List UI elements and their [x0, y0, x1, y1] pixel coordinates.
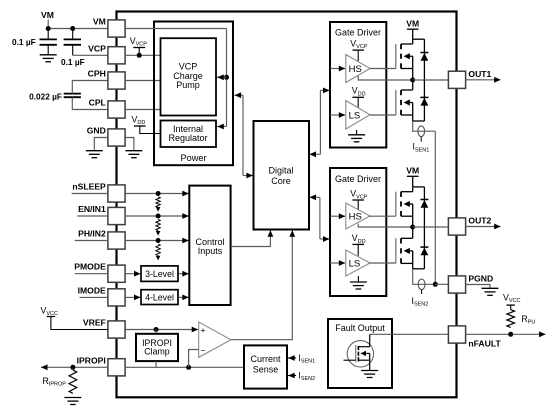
wire VM supply drop — [47, 20, 49, 29]
transistor HS2 FET — [396, 192, 413, 217]
wire fault FET source to ground — [369, 360, 371, 370]
pin PMODE — [108, 265, 125, 282]
wire IPROPI external lead with arrow — [41, 364, 108, 370]
capacitor C2 0.1 uF (VM to VCP) — [64, 29, 81, 56]
svg-text:VVCP: VVCP — [130, 36, 148, 48]
net label I_SEN2 at Current Sense — [298, 371, 315, 383]
wire OUT2 external with arrow — [466, 224, 501, 230]
wire HS1 input — [330, 66, 345, 72]
pin label OUT1 — [468, 69, 491, 79]
pin label PGND — [468, 274, 493, 284]
ground at PGND pin — [482, 288, 499, 295]
wire HS1 drain to body diode — [413, 38, 425, 40]
svg-text:VVCP: VVCP — [350, 38, 368, 50]
wire PMODE pin to 3-Level — [125, 271, 140, 277]
wire Digital Core to Gate Driver 2 — [310, 194, 330, 242]
pin label VREF — [83, 318, 106, 328]
wire I_SEN1 into Current Sense — [288, 355, 296, 361]
wire 4-Level to Control Inputs — [179, 295, 189, 301]
pin label CPL — [89, 98, 106, 108]
svg-text:CPL: CPL — [89, 98, 106, 108]
svg-text:VM: VM — [41, 10, 54, 20]
wire VREF pin to comparator — [125, 327, 198, 333]
ground right of GND pin — [125, 151, 142, 158]
wire HS2 source to OUT2 node — [412, 216, 414, 227]
wire LS2 sense path — [413, 269, 435, 285]
wire EN/IN1 pin to Control Inputs — [125, 213, 189, 219]
wire GND pin to right ground — [125, 138, 134, 151]
net label V_VCP in Gate Driver 2 — [350, 189, 368, 201]
wire VM feed into charge pump — [217, 74, 227, 80]
pin CPL — [108, 101, 125, 118]
svg-text:LS: LS — [349, 110, 361, 121]
wire 3-Level to Control Inputs — [179, 271, 189, 277]
block label Fault Output — [335, 323, 385, 333]
wire PH/IN2 external lead — [75, 240, 108, 242]
wire IMODE pin to 4-Level — [125, 295, 140, 301]
wire C2 to pin VCP — [73, 54, 108, 56]
wire I_SEN2 into Current Sense — [288, 373, 296, 379]
pin label VM — [93, 17, 106, 27]
svg-text:GND: GND — [87, 126, 106, 136]
supply tap V_DD for LS1 — [352, 97, 364, 107]
pin OUT1 — [448, 71, 465, 88]
wire nSLEEP external lead — [72, 193, 108, 195]
pin label nSLEEP — [72, 182, 106, 192]
pin VREF — [108, 321, 125, 338]
supply tap VM for HS1 FET — [407, 29, 419, 44]
pin VCP — [108, 47, 125, 64]
wire EN/IN1 external lead — [77, 215, 108, 217]
wire HS2 drain to body diode — [413, 186, 425, 188]
block Gate Driver 1 — [330, 22, 386, 148]
block Digital Core — [254, 121, 310, 230]
supply tap V_VCC for VREF — [47, 317, 108, 330]
svg-text:VVCC: VVCC — [503, 293, 521, 305]
svg-text:nSLEEP: nSLEEP — [72, 182, 106, 192]
block label Internal Regulator — [168, 124, 207, 143]
block label Power — [180, 153, 206, 163]
wire IPROPI pin to Current Sense — [125, 366, 244, 368]
wire LS2 gate — [369, 262, 396, 264]
junction on VM net at C2 — [70, 26, 75, 31]
svg-text:−: − — [201, 346, 206, 356]
transistor fault output FET — [344, 345, 370, 362]
svg-text:nFAULT: nFAULT — [468, 339, 501, 349]
wire OUT2 node to pin — [413, 226, 449, 228]
pin label PMODE — [74, 262, 106, 272]
block Internal Regulator — [161, 121, 217, 148]
net label I_SEN1 at Current Sense — [298, 353, 315, 365]
wire HS1 gate — [370, 68, 396, 70]
wire fault FET drain to nFAULT — [370, 334, 449, 346]
svg-text:VM: VM — [406, 166, 419, 176]
wire sense node to PGND pin — [435, 283, 448, 285]
svg-text:IPROPI: IPROPI — [77, 355, 106, 365]
supply tap V_DD — [134, 126, 161, 134]
pin label GND — [87, 126, 106, 136]
pin IMODE — [108, 289, 125, 306]
block Gate Driver 2 — [330, 168, 386, 296]
svg-text:PH/IN2: PH/IN2 — [78, 229, 106, 239]
transistor LS1 FET — [396, 90, 413, 115]
svg-text:ISEN1: ISEN1 — [298, 353, 315, 365]
ground below R_IPROP — [64, 398, 81, 405]
buffer LS2 — [346, 250, 370, 276]
pin PGND — [448, 276, 465, 293]
pin label PH/IN2 — [78, 229, 106, 239]
svg-text:Inputs: Inputs — [198, 246, 223, 256]
pin EN/IN1 — [108, 207, 125, 224]
svg-text:VVCP: VVCP — [350, 189, 368, 201]
block label Gate Driver 2 — [335, 174, 381, 184]
wire LS1 input — [330, 112, 345, 118]
wire CPH pin to charge pump — [125, 80, 160, 82]
current sense indicator I_SEN1 — [418, 126, 425, 142]
wire CPH to C3 — [72, 81, 108, 94]
supply tap V_VCC for R_PU — [507, 305, 515, 310]
ground in Fault Output — [361, 371, 378, 378]
svg-text:ISEN2: ISEN2 — [412, 296, 429, 308]
svg-text:VDD: VDD — [352, 86, 366, 98]
block Control Inputs — [189, 186, 230, 305]
wire LS2 drain — [412, 227, 414, 238]
svg-text:OUT1: OUT1 — [468, 69, 491, 79]
svg-text:Current: Current — [250, 354, 281, 364]
junction R_IPROP on IPROPI — [70, 365, 75, 370]
wire OUT1 external with arrow — [466, 77, 501, 83]
pin CPH — [108, 72, 125, 89]
wire Digital Core to Power block — [234, 92, 253, 178]
wire LS2 to ground — [357, 276, 359, 282]
pin PH/IN2 — [108, 232, 125, 249]
body diode of LS1 FET — [420, 80, 428, 121]
body diode of HS1 FET — [420, 39, 428, 80]
supply tap V_DD for LS2 — [352, 244, 364, 255]
ground in Gate Driver 1 — [348, 135, 365, 142]
svg-text:Gate Driver: Gate Driver — [335, 27, 381, 37]
buffer HS1 — [346, 55, 370, 83]
ground in Gate Driver 2 — [350, 282, 367, 289]
svg-text:VVCC: VVCC — [41, 306, 59, 318]
node OUT1 junction — [410, 78, 415, 83]
net label VM at half-bridge 2 — [406, 166, 419, 176]
svg-text:ISEN2: ISEN2 — [298, 371, 315, 383]
pin IPROPI — [108, 359, 125, 376]
svg-text:Fault Output: Fault Output — [335, 323, 385, 333]
net label V_DD in Gate Driver 2 — [352, 233, 366, 245]
block label Digital Core — [268, 166, 293, 187]
block label 3-Level — [145, 269, 174, 279]
net label V_VCC at R_PU — [503, 293, 521, 305]
pin nSLEEP — [108, 185, 125, 202]
wire HS2 input — [330, 213, 345, 219]
net label V_DD at regulator — [132, 115, 146, 127]
supply tap V_VCP for HS2 — [352, 200, 364, 210]
wire nSLEEP pin to Control Inputs — [125, 191, 189, 197]
block label VCP Charge Pump — [173, 62, 203, 91]
net label V_VCP in Gate Driver 1 — [350, 38, 368, 50]
net label I_SEN2 at bridge 2 — [412, 296, 429, 308]
svg-text:EN/IN1: EN/IN1 — [78, 204, 106, 214]
junction nSLEEP pulldown — [156, 191, 161, 196]
body diode of LS2 FET — [420, 227, 428, 269]
pin OUT2 — [448, 218, 465, 235]
wire LS1 source to sense — [413, 115, 425, 121]
net label V_VCP at VCP pin — [130, 36, 148, 48]
transistor HS1 FET — [396, 44, 413, 69]
wire VM to pin VM — [48, 28, 108, 30]
capacitor C1 0.1 uF (VM to GND) — [40, 29, 57, 55]
block label IPROPI Clamp — [142, 338, 172, 357]
wire LS1 drain — [412, 80, 414, 90]
buffer HS2 — [346, 203, 370, 229]
wire HS2 driver source reference — [358, 224, 413, 228]
ground left of GND pin — [86, 151, 103, 158]
pin nFAULT — [448, 326, 465, 343]
svg-text:ISEN1: ISEN1 — [413, 142, 430, 154]
wire GND pin to left ground — [94, 138, 108, 151]
wire LS2 source to sense — [413, 263, 425, 268]
svg-text:CPH: CPH — [88, 69, 106, 79]
junction on VM net at C1 — [46, 26, 51, 31]
wire IPROPI Clamp to IPROPI line — [155, 361, 157, 367]
svg-text:OUT2: OUT2 — [468, 216, 491, 226]
body diode of HS2 FET — [420, 187, 428, 227]
svg-text:PGND: PGND — [468, 274, 493, 284]
svg-text:LS: LS — [349, 259, 361, 270]
net label V_VCC at VREF — [41, 306, 59, 318]
wire Digital Core to Gate Driver 1 — [310, 88, 330, 158]
value label 0.022 uF for C3 — [29, 91, 62, 101]
svg-text:0.022 µF: 0.022 µF — [29, 91, 62, 101]
pin label IMODE — [78, 285, 106, 295]
pin label IPROPI — [77, 355, 106, 365]
svg-text:VDD: VDD — [352, 233, 366, 245]
value label 0.1 uF for C2 — [61, 57, 85, 67]
pin GND — [108, 129, 125, 146]
open-drain MOSFET circle — [347, 341, 373, 367]
net label V_DD in Gate Driver 1 — [352, 86, 366, 98]
block 4-Level — [141, 290, 178, 305]
component label R_PU — [521, 314, 535, 326]
svg-text:Sense: Sense — [253, 365, 279, 375]
block label Current Sense — [250, 354, 281, 375]
wire OUT1 node to pin — [413, 79, 449, 81]
net label VM at half-bridge 1 — [406, 18, 419, 28]
wire CPL pin to charge pump — [125, 109, 160, 111]
wire VM feed into internal regulator — [217, 124, 227, 130]
current sense indicator I_SEN2 — [418, 279, 425, 294]
wire PGND to external ground — [466, 285, 490, 289]
net label VM (external supply) — [41, 10, 54, 20]
svg-text:HS: HS — [349, 64, 362, 75]
svg-text:VREF: VREF — [83, 318, 106, 328]
block Current Sense — [244, 345, 287, 388]
junction R_PU on nFAULT — [508, 332, 513, 337]
buffer LS1 — [346, 101, 370, 130]
junction VREF to IPROPI clamp — [154, 327, 159, 332]
component label R_IPROP — [43, 376, 67, 388]
svg-text:Digital: Digital — [268, 166, 293, 176]
wire I_SEN1 down to PGND net — [434, 131, 436, 284]
block label Gate Driver 1 — [335, 27, 381, 37]
block label Control Inputs — [195, 237, 224, 256]
junction internal VM feed — [224, 75, 229, 80]
wire PH/IN2 pin to Control Inputs — [125, 238, 189, 244]
svg-text:VDD: VDD — [132, 115, 146, 127]
wire PMODE external lead — [75, 273, 108, 275]
wire Control Inputs to Digital Core — [231, 230, 274, 246]
pin label CPH — [88, 69, 106, 79]
svg-text:VM: VM — [93, 17, 106, 27]
junction V_VCP on VCP wire — [137, 53, 142, 58]
wire comparator output to Digital Core — [231, 230, 295, 340]
wire LS1 gate — [370, 114, 396, 116]
pulldown resistor on nSLEEP — [156, 197, 161, 212]
svg-text:+: + — [201, 325, 206, 335]
transistor LS2 FET — [396, 238, 413, 263]
svg-text:HS: HS — [349, 212, 362, 223]
wire IMODE external lead — [80, 296, 108, 298]
svg-text:RIPROP: RIPROP — [43, 376, 67, 388]
block Power (outer box) — [154, 22, 233, 166]
net label I_SEN1 at bridge 1 — [413, 142, 430, 154]
pin label nFAULT — [468, 339, 501, 349]
supply tap VM for HS2 FET — [407, 176, 419, 191]
wire HS1 driver source reference — [358, 76, 413, 80]
pin label VCP — [88, 43, 106, 53]
junction IPROPI to op-amp inverting input — [186, 365, 191, 370]
value label 0.1 uF for C1 — [12, 37, 36, 47]
svg-text:Gate Driver: Gate Driver — [335, 174, 381, 184]
block Fault Output — [328, 319, 392, 388]
block IPROPI Clamp — [136, 334, 178, 361]
op-amp current sense amplifier — [199, 322, 231, 357]
svg-text:PMODE: PMODE — [74, 262, 106, 272]
junction PGND sense node — [433, 282, 438, 287]
wire LS1 sense path — [413, 121, 436, 131]
block 3-Level — [141, 266, 178, 282]
supply tap V_VCP — [133, 48, 145, 56]
block VCP Charge Pump — [161, 38, 217, 115]
pin label EN/IN1 — [78, 204, 106, 214]
svg-text:Core: Core — [271, 176, 291, 186]
svg-text:Power: Power — [180, 153, 206, 163]
ground below C1 — [40, 55, 57, 62]
supply tap V_VCP for HS1 — [352, 50, 364, 61]
wire LS2 input — [330, 260, 345, 266]
svg-text:Pump: Pump — [176, 80, 200, 90]
svg-text:3-Level: 3-Level — [145, 269, 174, 279]
pulldown resistor on EN/IN1 — [156, 220, 161, 236]
svg-text:VM: VM — [406, 18, 419, 28]
junction EN/IN1 pulldown — [156, 214, 161, 219]
svg-text:VCP: VCP — [88, 43, 106, 53]
wire VCP pin to charge pump — [125, 54, 160, 56]
wire HS2 gate — [369, 215, 396, 217]
pin VM — [108, 20, 125, 37]
wire VM pin to internal feed — [125, 28, 226, 30]
svg-text:RPU: RPU — [521, 314, 535, 326]
svg-text:Clamp: Clamp — [144, 347, 170, 357]
svg-text:0.1 µF: 0.1 µF — [61, 57, 85, 67]
svg-text:IMODE: IMODE — [78, 285, 106, 295]
node OUT2 junction — [410, 225, 415, 230]
capacitor C3 0.022 uF (CPH to CPL) — [64, 94, 81, 98]
wire CPL to C3 — [72, 97, 108, 109]
wire VREF tap to IPROPI Clamp — [155, 330, 157, 334]
IC boundary outline — [117, 12, 457, 398]
resistor R_IPROP — [69, 370, 77, 393]
wire IPROPI to op-amp inverting input — [189, 350, 199, 368]
svg-text:Regulator: Regulator — [168, 133, 207, 143]
wire nFAULT external with arrow — [466, 331, 546, 337]
pulldown resistor on PH/IN2 — [156, 244, 161, 260]
wire LS1 to ground — [356, 130, 358, 135]
resistor R_PU — [507, 310, 515, 328]
wire HS1 source to OUT1 node — [412, 69, 414, 81]
wire internal VM feed down — [226, 29, 228, 127]
junction PH/IN2 pulldown — [156, 238, 161, 243]
svg-text:4-Level: 4-Level — [145, 293, 174, 303]
pin label OUT2 — [468, 216, 491, 226]
svg-text:0.1 µF: 0.1 µF — [12, 37, 36, 47]
block label 4-Level — [145, 293, 174, 303]
